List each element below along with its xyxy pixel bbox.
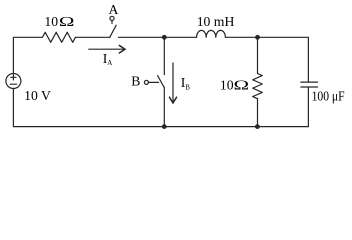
svg-text:Ω: Ω bbox=[234, 77, 250, 92]
current arrow IB (points down) bbox=[172, 63, 174, 101]
arrowhead of IB (chevron) bbox=[169, 97, 176, 103]
bottom wire node 4 to node 3 bbox=[164, 126, 257, 128]
resistor R2 vertical zigzag 10 ohm bbox=[253, 74, 263, 99]
capacitor C1 bottom plate bbox=[301, 86, 318, 88]
resistor R1 zigzag 10 ohm bbox=[42, 32, 75, 42]
wire top-left horizontal (left rail corner to resistor R1) bbox=[13, 37, 42, 73]
svg-text:Ω: Ω bbox=[59, 14, 75, 29]
wire from switch A to node 1 bbox=[118, 36, 164, 38]
switch A terminal circle bbox=[110, 16, 114, 20]
svg-text:B: B bbox=[131, 73, 140, 88]
wire node 2 down to resistor R2 bbox=[257, 37, 259, 73]
junction node 2 (top, R2 branch) bbox=[255, 35, 260, 40]
wire C1 to bottom-right corner and along bottom to node 4 bbox=[257, 87, 308, 126]
voltage source V1 circle bbox=[6, 74, 21, 89]
svg-text:100 μF: 100 μF bbox=[312, 88, 345, 103]
wire R2 to node 4 on bottom wire bbox=[257, 99, 259, 127]
svg-text:10 mH: 10 mH bbox=[197, 14, 235, 29]
switch B terminal stub from circle bbox=[148, 81, 158, 83]
switch A terminal stub below circle bbox=[111, 21, 113, 24]
wire node 2 to top-right corner and down right rail to capacitor C1 bbox=[258, 37, 309, 82]
svg-text:10 V: 10 V bbox=[24, 88, 51, 103]
switch A blade (open, tilted up-right) bbox=[110, 25, 116, 37]
junction node 4 (bottom, R2 branch) bbox=[255, 124, 260, 129]
svg-text:A: A bbox=[109, 2, 119, 17]
switch B blade (open, tilted up-left) bbox=[158, 76, 164, 87]
bottom wire node 3 to bottom-left corner bbox=[13, 89, 164, 127]
junction node 3 (bottom, middle branch) bbox=[162, 124, 167, 129]
wire L1 to node 2 bbox=[225, 36, 257, 38]
voltage source V1 plus sign bbox=[11, 75, 16, 80]
capacitor C1 top plate bbox=[301, 81, 318, 83]
arrowhead of IA (chevron) bbox=[119, 45, 125, 53]
voltage source V1 minus sign bbox=[10, 83, 16, 85]
svg-text:10: 10 bbox=[44, 14, 58, 29]
middle branch upper segment from node 1 down to switch B bbox=[163, 37, 165, 74]
wire node 1 to inductor L1 bbox=[164, 36, 196, 38]
inductor L1 10 mH (3 humps) bbox=[197, 30, 226, 37]
svg-text:IB: IB bbox=[181, 75, 191, 91]
switch B terminal circle bbox=[144, 80, 148, 84]
junction node 1 (top, middle branch) bbox=[162, 35, 167, 40]
svg-text:10: 10 bbox=[220, 77, 234, 92]
current arrow IA (points right) bbox=[89, 48, 123, 50]
svg-text:IA: IA bbox=[103, 51, 113, 67]
middle branch lower segment from switch B pivot to node 3 bbox=[163, 87, 165, 127]
wire from R1 to switch A pivot bbox=[75, 36, 110, 38]
